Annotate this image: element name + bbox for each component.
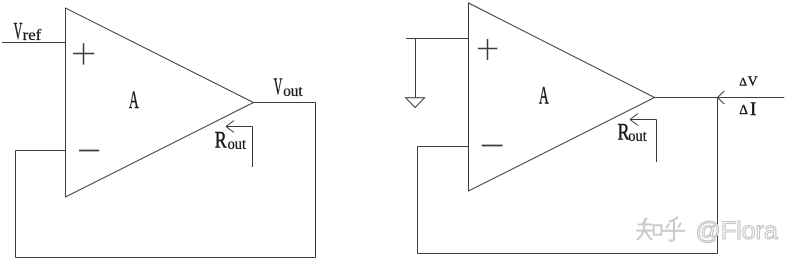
pin + (A2 non-inverting input) [478,39,497,60]
op-amp A2 [469,3,655,191]
svg-text:ref: ref [23,26,42,45]
svg-text:out: out [283,83,303,100]
wire ground tap (A2) [415,39,417,98]
wire feedback right vertical (A1) [315,103,317,258]
wire Vref input [2,42,66,44]
watermark zhihu logo HU character [664,218,685,241]
svg-text:@Flora: @Flora [696,217,778,245]
op-amp A1 [66,8,254,197]
watermark zhihu logo ZHI character [637,219,661,240]
wire feedback bottom (A1) [16,257,316,259]
svg-text:Δ: Δ [739,74,747,88]
wire inverting input (A1) [16,150,66,152]
pin - (A1 inverting input) [79,150,99,152]
svg-text:V: V [748,73,758,88]
svg-text:out: out [228,135,247,153]
svg-text:out: out [628,127,647,145]
pin - (A2 inverting input) [482,145,503,147]
wire output (A2) [655,97,785,99]
svg-text:V: V [274,74,283,101]
probe Rout vertical (A1) [252,127,254,168]
wire non-inverting input (A2) [406,38,469,40]
label Vout [274,74,304,101]
wire feedback bottom (A2) [418,253,718,255]
probe Rout arrow (A2) [630,114,657,126]
ground [406,98,425,108]
probe Rout vertical (A2) [656,120,658,163]
wire inverting input (A2) [418,146,469,148]
svg-text:I: I [750,99,756,120]
svg-text:R: R [215,129,227,154]
probe Rout arrow (A1) [226,121,253,133]
svg-text:V: V [14,19,23,46]
wire feedback right vertical (A2) [717,98,719,254]
arrowhead test current into output (A2) [718,91,725,104]
label Rout (A1) [215,129,247,154]
svg-text:A: A [539,82,549,109]
svg-text:Δ: Δ [739,102,748,117]
label delta-V [739,73,758,88]
label delta-I [739,99,756,120]
wire feedback left vertical (A2) [417,147,419,254]
pin + (A1 non-inverting input) [73,43,94,64]
label Vref [14,19,42,46]
svg-text:A: A [129,87,139,114]
wire output Vout (A1) [254,102,316,104]
wire feedback left vertical (A1) [15,151,17,258]
label Rout (A2) [618,121,648,146]
